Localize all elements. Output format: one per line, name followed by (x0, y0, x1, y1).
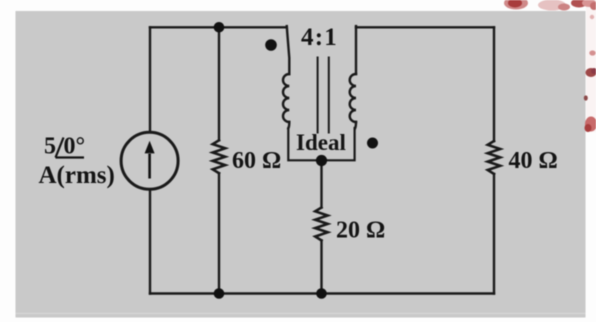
transformer primary winding L1 (283, 74, 289, 122)
svg-text:20 Ω: 20 Ω (336, 218, 385, 244)
svg-text:5: 5 (44, 134, 56, 160)
current source arrow (145, 141, 155, 179)
red scan artifact: faint pink tint right margin (586, 0, 596, 132)
junction dot: bottom node left (214, 288, 225, 299)
red scan artifact dot right margin y98 (584, 95, 588, 100)
svg-text:60 Ω: 60 Ω (232, 148, 281, 174)
wire: transformer primary top lead (287, 26, 290, 74)
ideal transformer box (open top) (288, 128, 354, 160)
wire: right branch lower (493, 174, 495, 294)
red scan artifact patch right margin y124 (585, 117, 596, 132)
red scan artifact dot right margin y17 (590, 15, 594, 19)
wire: top bus, source to transformer primary (150, 26, 287, 28)
wire: 20ohm branch upper (320, 161, 322, 208)
junction dot: top node (214, 22, 225, 33)
polarity dot: primary (265, 39, 277, 51)
red scan artifact dash right margin y53 (589, 50, 595, 55)
wire: transformer secondary top lead (355, 26, 357, 74)
svg-text:Ideal: Ideal (296, 130, 346, 155)
wire: source branch upper (149, 27, 151, 132)
svg-text:0°: 0° (64, 134, 86, 160)
wire: transformer primary bottom lead (288, 122, 289, 129)
junction dot: transformer secondary bottom terminal (316, 155, 327, 166)
wire: source branch lower (149, 189, 151, 293)
wire: right branch upper (493, 27, 495, 141)
angle underline (56, 156, 85, 158)
polarity dot: secondary (367, 138, 378, 149)
transformer core line right (328, 58, 330, 133)
red scan artifact pink wash top (538, 0, 566, 11)
transformer secondary winding L2 (350, 74, 356, 122)
wire: 60ohm branch lower (218, 173, 220, 293)
wire: 20ohm branch lower (320, 240, 322, 293)
red scan artifact blob top (dark core with pink halo) (504, 0, 528, 10)
resistor R3 40ohm zigzag (488, 141, 501, 174)
svg-text:4:1: 4:1 (301, 24, 338, 51)
resistor R1 60ohm zigzag (213, 140, 226, 173)
wire: bottom bus (150, 292, 494, 294)
wire: 60ohm branch upper (218, 27, 220, 140)
transformer core line left (317, 58, 319, 133)
svg-text:40 Ω: 40 Ω (509, 148, 558, 174)
red scan artifact patch top-right corner (571, 0, 587, 8)
resistor R2 20ohm zigzag (315, 208, 328, 241)
wire: transformer secondary bottom lead (355, 122, 356, 129)
angle slash (56, 138, 64, 158)
current source circle (121, 132, 178, 189)
svg-text:A(rms): A(rms) (39, 162, 115, 189)
wire: top bus, transformer secondary to right branch (356, 26, 494, 28)
red scan artifact mark right margin y72 (586, 68, 596, 77)
junction dot: bottom node center (316, 288, 327, 299)
